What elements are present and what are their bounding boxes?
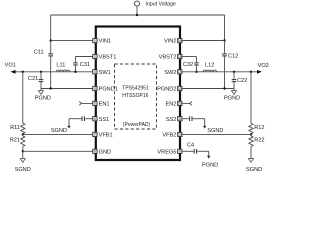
svg-text:SGND: SGND bbox=[51, 128, 67, 134]
svg-text:PGND2: PGND2 bbox=[157, 87, 176, 93]
svg-text:R22: R22 bbox=[254, 138, 264, 144]
svg-text:16: 16 bbox=[178, 39, 182, 43]
wire VFB1 bbox=[23, 133, 93, 135]
svg-text:10: 10 bbox=[178, 133, 182, 137]
wire right bus drop bbox=[224, 15, 226, 41]
resistor R11 bbox=[10, 123, 25, 134]
wire SS2 with capacitor bbox=[182, 116, 205, 126]
pin 7 VFB1 bbox=[93, 132, 113, 138]
pin 10 VFB2 bbox=[162, 132, 182, 138]
svg-text:9: 9 bbox=[179, 150, 181, 154]
svg-text:3: 3 bbox=[94, 70, 96, 74]
ground SGND SS2 bbox=[203, 126, 223, 135]
pin 1 VIN1 bbox=[93, 38, 111, 44]
svg-text:8: 8 bbox=[94, 150, 96, 154]
ground SGND divider right bbox=[246, 159, 262, 173]
svg-text:L12: L12 bbox=[205, 62, 214, 68]
pin 15 VBST2 bbox=[159, 54, 182, 60]
node VIN1 junction bbox=[50, 39, 52, 41]
svg-text:Input Voltage: Input Voltage bbox=[146, 2, 176, 8]
svg-text:VO1: VO1 bbox=[5, 63, 16, 69]
wire VO1 / SW1 line bbox=[15, 71, 93, 73]
svg-text:C31: C31 bbox=[80, 62, 90, 68]
svg-text:R11: R11 bbox=[10, 125, 20, 131]
capacitor C11 bbox=[34, 41, 53, 89]
svg-text:EN2: EN2 bbox=[166, 102, 177, 108]
svg-text:2: 2 bbox=[94, 55, 96, 59]
node GND1 junction bbox=[22, 150, 24, 152]
svg-text:PGND: PGND bbox=[202, 163, 218, 169]
svg-text:5: 5 bbox=[94, 102, 96, 106]
svg-text:L11: L11 bbox=[56, 62, 65, 68]
node VIN2 junction bbox=[223, 39, 225, 41]
wire divider drop VO2 bbox=[250, 71, 252, 124]
capacitor C32 (bootstrap) bbox=[183, 57, 199, 74]
wire VREG5 with capacitor C4 bbox=[182, 143, 209, 156]
pin 13 PGND2 bbox=[157, 86, 182, 92]
svg-text:SGND: SGND bbox=[246, 167, 262, 173]
pin 8 GND bbox=[93, 149, 111, 155]
wire input drop bbox=[136, 6, 138, 15]
svg-text:R21: R21 bbox=[10, 138, 20, 144]
pin 5 EN1 bbox=[93, 101, 110, 107]
svg-text:1: 1 bbox=[94, 39, 96, 43]
svg-text:SGND: SGND bbox=[207, 128, 223, 134]
svg-text:C4: C4 bbox=[187, 143, 194, 149]
wire VIN1 bbox=[51, 40, 93, 42]
pin 14 SW2 bbox=[164, 70, 182, 76]
pin 16 VIN2 bbox=[164, 38, 182, 44]
junction input bus bbox=[136, 14, 138, 16]
inductor L12 bbox=[203, 62, 217, 71]
pin 4 PGND1 bbox=[93, 86, 118, 92]
wire SW2 / VO2 line bbox=[182, 71, 258, 73]
wire divider drop VO1 bbox=[22, 71, 24, 124]
svg-text:C12: C12 bbox=[228, 53, 238, 59]
capacitor C31 (bootstrap) bbox=[73, 57, 90, 74]
svg-text:VBST2: VBST2 bbox=[159, 55, 177, 61]
wire GND bbox=[23, 150, 93, 152]
svg-text:7: 7 bbox=[94, 133, 96, 137]
svg-text:R12: R12 bbox=[254, 125, 264, 131]
ground SGND SS1 bbox=[51, 126, 71, 135]
svg-text:C32: C32 bbox=[183, 62, 193, 68]
svg-text:4: 4 bbox=[94, 87, 96, 91]
wire EN1 with open arrow bbox=[79, 102, 93, 106]
inductor L11 bbox=[56, 62, 70, 71]
svg-text:PGND1: PGND1 bbox=[99, 87, 118, 93]
wire PGND1 bbox=[41, 88, 93, 90]
svg-text:PGND: PGND bbox=[224, 95, 240, 101]
pin 6 SS1 bbox=[93, 117, 109, 123]
svg-text:15: 15 bbox=[178, 55, 182, 59]
svg-text:SS2: SS2 bbox=[166, 117, 177, 123]
svg-text:C22: C22 bbox=[237, 78, 247, 84]
wire PGND2 bbox=[182, 88, 234, 90]
pin 9 VREG5 bbox=[157, 149, 182, 155]
pin 2 VBST1 bbox=[93, 54, 117, 60]
capacitor C21 bbox=[28, 71, 43, 89]
pin 12 EN2 bbox=[166, 101, 182, 107]
wire left bus drop bbox=[50, 15, 52, 41]
svg-text:EN1: EN1 bbox=[99, 102, 110, 108]
ground PGND left bbox=[35, 89, 51, 102]
junction C12 to PGND wire bbox=[223, 87, 225, 89]
wire VFB2 bbox=[182, 133, 251, 135]
svg-text:SW2: SW2 bbox=[164, 70, 176, 76]
label Input Voltage bbox=[146, 2, 176, 8]
svg-text:VFB1: VFB1 bbox=[99, 133, 113, 139]
svg-text:(PowerPAD): (PowerPAD) bbox=[123, 122, 151, 128]
svg-text:C11: C11 bbox=[34, 50, 44, 56]
svg-text:SS1: SS1 bbox=[99, 117, 110, 123]
terminal VO2 arrow bbox=[257, 63, 269, 74]
svg-text:14: 14 bbox=[178, 70, 182, 74]
resistor R21 bbox=[10, 134, 25, 151]
capacitor C12 bbox=[222, 41, 238, 89]
svg-text:12: 12 bbox=[178, 102, 182, 106]
junction C11 to PGND wire bbox=[50, 87, 52, 89]
pin 3 SW1 bbox=[93, 70, 111, 76]
terminal VO1 arrow bbox=[5, 63, 16, 74]
svg-text:C21: C21 bbox=[28, 76, 38, 82]
svg-text:VFB2: VFB2 bbox=[162, 133, 176, 139]
wire top bus bbox=[51, 14, 225, 16]
resistor R12 bbox=[249, 123, 265, 134]
svg-text:VREG5: VREG5 bbox=[157, 149, 176, 155]
svg-text:VIN2: VIN2 bbox=[164, 39, 176, 45]
node FB1 junction bbox=[22, 133, 24, 135]
wire VIN2 bbox=[182, 40, 224, 42]
PowerPAD dashed bbox=[115, 64, 157, 129]
svg-text:13: 13 bbox=[178, 87, 182, 91]
wire VBST2 bbox=[182, 56, 196, 58]
capacitor C22 bbox=[232, 71, 248, 89]
svg-text:VO2: VO2 bbox=[258, 63, 269, 69]
svg-text:GND: GND bbox=[99, 149, 111, 155]
svg-text:HTSSOP16: HTSSOP16 bbox=[122, 93, 148, 99]
svg-text:VIN1: VIN1 bbox=[99, 39, 111, 45]
svg-text:6: 6 bbox=[94, 117, 96, 121]
svg-text:11: 11 bbox=[178, 117, 182, 121]
svg-text:PGND: PGND bbox=[35, 95, 51, 101]
wire SS1 with capacitor bbox=[69, 116, 93, 126]
ground PGND right bbox=[224, 89, 240, 102]
svg-text:VBST1: VBST1 bbox=[99, 55, 117, 61]
wire EN2 with open arrow bbox=[182, 102, 192, 106]
svg-text:SGND: SGND bbox=[15, 167, 31, 173]
ground SGND divider left bbox=[15, 151, 31, 173]
resistor R22 bbox=[249, 134, 265, 158]
input terminal circle bbox=[135, 1, 140, 6]
wire VBST1 bbox=[76, 56, 93, 58]
svg-text:SW1: SW1 bbox=[99, 70, 111, 76]
IC U1 body TPS542951 bbox=[96, 27, 180, 161]
node FB2 junction bbox=[250, 133, 252, 135]
svg-text:TPS542951: TPS542951 bbox=[122, 85, 149, 91]
ground PGND VREG5 bbox=[202, 156, 218, 169]
pin 11 SS2 bbox=[166, 117, 182, 123]
